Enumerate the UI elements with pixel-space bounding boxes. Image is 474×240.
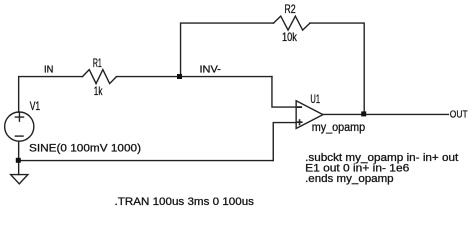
node junction at INV- — [177, 74, 182, 79]
svg-text:.TRAN 100us 3ms 0 100us: .TRAN 100us 3ms 0 100us — [115, 196, 255, 208]
wire bottom rail — [19, 160, 274, 162]
wire feedback left vertical — [181, 23, 274, 77]
wire INV- down to op-amp minus input — [272, 77, 296, 108]
svg-text:R1: R1 — [93, 56, 102, 70]
wire feedback right down to output — [310, 23, 364, 114]
svg-text:IN: IN — [44, 64, 53, 76]
wire IN from V1 top to R1 — [19, 77, 83, 113]
wire R1 to INV- corner — [116, 76, 272, 78]
wire plus input from ground rail — [273, 123, 296, 161]
ground — [11, 175, 28, 184]
wire op-amp output to OUT — [323, 113, 449, 115]
node junction at V1 bottom — [16, 158, 21, 163]
V1 minus sign — [15, 135, 23, 137]
svg-text:my_opamp: my_opamp — [312, 120, 366, 134]
svg-text:10k: 10k — [282, 30, 298, 44]
resistor R2 — [273, 16, 310, 30]
svg-text:OUT: OUT — [450, 110, 468, 121]
svg-text:INV-: INV- — [200, 64, 222, 76]
resistor R1 — [82, 70, 116, 84]
svg-text:R2: R2 — [284, 2, 295, 16]
svg-text:SINE(0 100mV 1000): SINE(0 100mV 1000) — [29, 142, 141, 154]
svg-text:U1: U1 — [310, 94, 320, 106]
op-amp U1 — [296, 101, 323, 129]
V1 plus sign — [15, 113, 23, 121]
op-amp minus mark — [298, 106, 302, 108]
svg-text:1k: 1k — [94, 84, 103, 98]
voltage source V1 — [5, 112, 34, 141]
wire V1 bottom to ground — [18, 141, 20, 174]
svg-text:.ends my_opamp: .ends my_opamp — [305, 173, 394, 185]
node junction at output — [361, 111, 366, 116]
svg-text:V1: V1 — [30, 101, 41, 113]
op-amp plus mark — [297, 120, 301, 124]
